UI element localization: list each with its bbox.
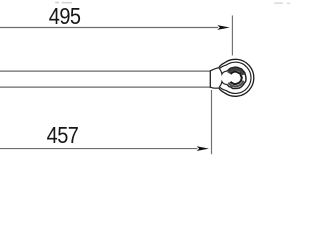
extension line at rod end [211,90,213,154]
ball socket seat thick top [228,69,243,75]
arrowhead 457 [197,146,209,151]
rod bottom edge [0,86,210,88]
ball socket outer edge [227,67,246,88]
neck top flare [210,68,218,71]
dimension line 495 [0,27,218,29]
ball socket hole [230,72,241,84]
ball socket seat thick bottom [228,81,243,87]
dimension line 457 [0,148,197,150]
eyelet inner rim ring with neck fillets [220,62,251,93]
cropped text fragment top-right [274,2,290,4]
cropped text fragment top-left [55,2,72,4]
slot funnel top edge [219,68,227,74]
rod top edge [0,70,210,72]
slot funnel bottom edge [219,82,227,88]
rod end cap [209,71,211,87]
eyelet outer ring with neck fillets [219,59,254,96]
extension line at eyelet center [231,15,233,55]
arrowhead 495 [217,25,229,30]
neck bottom flare [210,87,218,88]
svg-text:495: 495 [49,3,81,30]
svg-text:457: 457 [47,122,79,149]
